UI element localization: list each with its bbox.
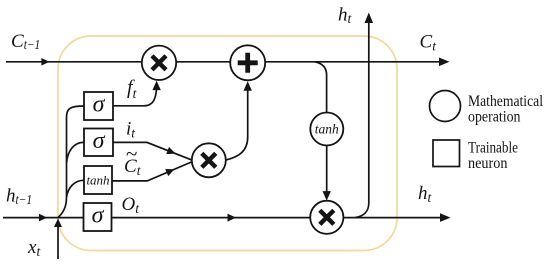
legend square: trainable neuron <box>433 140 460 167</box>
svg-text:ft: ft <box>127 77 138 102</box>
trainable neuron box sigma 1 (forget gate) <box>84 92 113 120</box>
svg-text:ht: ht <box>418 183 433 205</box>
svg-text:ht−1: ht−1 <box>6 186 32 207</box>
arrowhead O_t line mid <box>228 214 237 222</box>
svg-text:it: it <box>126 119 136 141</box>
svg-text:operation: operation <box>468 109 521 126</box>
wire: i_t diagonal into multiply circle 2 <box>113 142 193 160</box>
wire: h_t branch up from output line <box>355 18 369 218</box>
svg-text:Ct−1: Ct−1 <box>11 31 40 52</box>
svg-text:σ: σ <box>93 92 106 118</box>
wire: hidden-state line h (bottom horizontal) <box>3 217 444 219</box>
svg-text:tanh: tanh <box>315 122 339 137</box>
op circle: plus (cell update) <box>230 45 265 80</box>
arrowhead on h_{t-1} input <box>39 214 47 222</box>
wire: f_t from sigma1 up into multiply circle <box>113 85 157 106</box>
wire: tanh circle down into multiply circle 3 <box>326 146 328 197</box>
arrowhead h_t right output <box>440 213 451 222</box>
trainable neuron box sigma 3 (output gate) <box>84 203 112 231</box>
arrowhead on C line near input <box>41 58 49 66</box>
op circle: multiply 2 (input) <box>192 143 226 177</box>
svg-text:xt: xt <box>27 237 41 259</box>
cell boundary (yellow rounded rectangle) <box>58 36 397 251</box>
svg-text:Ct: Ct <box>420 31 438 53</box>
trainable neuron box sigma 2 (input gate) <box>84 129 113 157</box>
svg-text:Ot: Ot <box>122 194 141 216</box>
wire: junction trunk up to sigma box 1 <box>58 106 84 218</box>
svg-text:neuron: neuron <box>468 155 508 172</box>
op circle: tanh <box>310 113 343 146</box>
trainable neuron box tanh (candidate) <box>84 166 112 194</box>
arrowhead x_t into junction <box>54 219 62 228</box>
wire: branch from C line down to tanh circle <box>315 62 327 113</box>
wire: branch to sigma box 2 <box>67 142 85 163</box>
svg-text:σ: σ <box>92 203 105 229</box>
op circle: multiply 3 (output) <box>310 201 343 234</box>
svg-text:tanh: tanh <box>86 173 109 188</box>
svg-text:Mathematical: Mathematical <box>468 93 543 110</box>
arrowhead C_t output <box>439 58 450 67</box>
svg-text:σ: σ <box>93 128 106 154</box>
svg-text:ht: ht <box>338 5 353 27</box>
svg-text:~: ~ <box>126 142 137 166</box>
svg-text:Trainable: Trainable <box>468 140 518 157</box>
op circle: multiply 1 (forget) <box>142 46 176 80</box>
legend circle: mathematical operation <box>430 91 461 122</box>
wire: branch to tanh box <box>67 180 85 197</box>
wire: multiply2 to plus circle <box>226 86 248 160</box>
wire: cell-state line C (top horizontal) <box>6 61 443 63</box>
wire: C~_t diagonal into multiply circle 2 <box>112 162 193 181</box>
wire: x_t input vertical <box>57 221 59 259</box>
